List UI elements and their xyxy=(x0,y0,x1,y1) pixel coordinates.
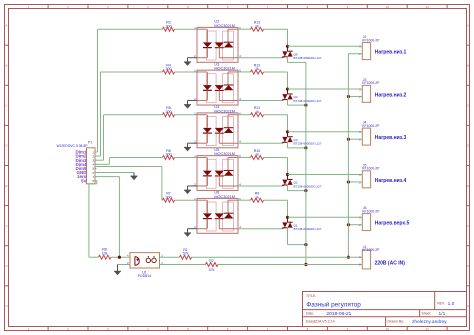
junction phase bus stage 4 xyxy=(304,189,307,192)
net label Нагрев.верх.5 xyxy=(375,221,410,227)
svg-text:H: H xyxy=(467,304,469,308)
svg-text:Нагрев.верх.5: Нагрев.верх.5 xyxy=(375,221,410,227)
net label Dim3 xyxy=(75,158,87,163)
wire R13 to node MT2 xyxy=(264,29,288,46)
svg-text:1k: 1k xyxy=(255,67,259,71)
svg-text:57k: 57k xyxy=(209,268,215,272)
net label Нагрев.низ.4 xyxy=(375,178,407,184)
wire connector J3 pin 2 to neutral bus xyxy=(348,95,362,97)
border reference ticks right xyxy=(467,23,470,308)
junction triac Q1 MT2 xyxy=(286,216,289,219)
net label 220В (AC IN) xyxy=(375,260,406,266)
junction phase bus stage 3 xyxy=(304,146,307,149)
ground U6 xyxy=(184,233,191,237)
net label 5V xyxy=(81,178,87,183)
junction zero node xyxy=(118,256,121,259)
junction neutral bus at J3 xyxy=(347,95,350,98)
svg-text:10k: 10k xyxy=(102,251,108,255)
resistor R6 xyxy=(163,149,175,160)
svg-text:KF1000-2P: KF1000-2P xyxy=(362,81,380,85)
pin numbers U5 xyxy=(194,154,241,186)
svg-text:A: A xyxy=(5,23,7,27)
svg-text:zhelezny.andrey: zhelezny.andrey xyxy=(412,319,447,325)
net label Dim2 xyxy=(75,154,87,159)
optocoupler U1 FOD814 xyxy=(130,253,160,279)
svg-text:BT138-600E/DG,127: BT138-600E/DG,127 xyxy=(294,99,322,103)
wire U1 pin 2 to R2 xyxy=(160,264,206,266)
wire Q3 MT1 to phase bus xyxy=(288,142,306,148)
wire U5 pin 2 to ground xyxy=(188,186,198,190)
resistor R13 xyxy=(251,21,264,32)
pin numbers U2 xyxy=(194,26,241,58)
wire R10 to node MT2 xyxy=(264,157,288,174)
pin numbers U6 xyxy=(194,197,241,229)
svg-text:E: E xyxy=(5,184,7,188)
svg-text:KF1000-2P: KF1000-2P xyxy=(362,167,380,171)
resistor R8 xyxy=(99,248,112,260)
junction neutral bus at J6 xyxy=(347,223,350,226)
wire R12 to node MT2 xyxy=(264,72,288,89)
svg-text:P1: P1 xyxy=(88,141,92,145)
op­tocoupler U5 MOC3021M xyxy=(197,148,238,191)
svg-text:10: 10 xyxy=(386,5,390,9)
connector J1 KF1000-2P xyxy=(359,245,380,269)
junction neutral bus at AC neutral xyxy=(347,256,350,259)
wire R9 to node MT2 xyxy=(264,200,288,217)
wire R2 to connector J1 pin 2 (AC line) xyxy=(218,264,362,266)
junction phase bus at AC line xyxy=(304,263,307,266)
junction triac Q3 MT2 xyxy=(286,130,289,133)
svg-text:1k: 1k xyxy=(255,153,259,157)
ground U1 xyxy=(114,271,121,275)
title block Date xyxy=(306,311,352,317)
svg-text:1k: 1k xyxy=(255,110,259,114)
svg-text:KF1000-2P: KF1000-2P xyxy=(362,38,380,42)
wire U2 pin 2 to ground xyxy=(188,58,198,62)
wire Dim2 P1 pin 2 to stage 2 xyxy=(95,72,163,156)
triac Q3 BT138-600E/DG,127 xyxy=(282,132,322,148)
ground U3 xyxy=(184,105,191,109)
triac Q4 BT138-600E/DG,127 xyxy=(282,89,322,105)
ground U4 xyxy=(184,147,191,151)
wire neutral bus xyxy=(347,54,349,258)
wire R1 to connector J1 pin 1 (AC neutral) xyxy=(192,256,363,258)
svg-text:MOC3021M: MOC3021M xyxy=(214,24,234,28)
svg-text:MOC3021M: MOC3021M xyxy=(214,195,234,199)
pin numbers U1 xyxy=(127,254,163,265)
resistor R10 xyxy=(251,149,264,160)
wire R8 to U1 pin 4 xyxy=(111,256,130,258)
net label Нагрев.низ.3 xyxy=(375,135,407,141)
svg-text:11: 11 xyxy=(426,5,429,9)
connector J5 KF1000-2P xyxy=(359,163,380,188)
net label Нагрев.низ.1 xyxy=(375,50,407,56)
svg-text:200: 200 xyxy=(166,195,172,199)
wire U2 pin 4 to gate of Q5 xyxy=(238,56,285,57)
svg-text:KF1000-2P: KF1000-2P xyxy=(362,248,380,252)
svg-text:REV:: REV: xyxy=(437,301,445,305)
svg-text:A: A xyxy=(467,23,469,27)
junction phase bus stage 5 xyxy=(304,243,307,246)
wire U1 pin 1 to R1 xyxy=(160,256,180,258)
op­tocoupler U6 MOC3021M xyxy=(197,191,238,234)
svg-text:TITLE:: TITLE: xyxy=(306,294,316,298)
wire GND P1 pin 6 xyxy=(95,173,134,177)
wire U6 pin 2 to ground xyxy=(188,229,198,233)
op­tocoupler U3 MOC3021M xyxy=(197,62,238,105)
svg-text:1k: 1k xyxy=(255,24,259,28)
svg-text:BT138-600E/DG,127: BT138-600E/DG,127 xyxy=(294,227,322,231)
wire MT2 node to connector J4 pin 1 xyxy=(288,131,363,133)
triac Q5 BT138-600E/DG,127 xyxy=(282,46,322,62)
wire U3 pin 6 to R12 xyxy=(238,71,251,73)
svg-text:B: B xyxy=(467,64,469,68)
title block EasyEDA version xyxy=(306,320,335,324)
title block Sheet xyxy=(422,311,446,317)
wire U5 pin 4 to gate of Q2 xyxy=(238,185,285,186)
border reference ticks top xyxy=(27,5,447,9)
title block xyxy=(303,292,467,327)
svg-text:57k: 57k xyxy=(183,252,189,256)
svg-text:Нагрев.низ.2: Нагрев.низ.2 xyxy=(375,92,407,98)
wire MT2 node to connector J3 pin 1 xyxy=(288,88,363,90)
wire U4 pin 6 to R11 xyxy=(238,114,251,116)
title Фазный регулятор xyxy=(306,301,361,309)
svg-text:F: F xyxy=(467,224,469,228)
wire Q5 MT1 to phase bus xyxy=(288,57,306,63)
svg-text:Date:: Date: xyxy=(306,312,314,316)
svg-text:11: 11 xyxy=(426,327,429,331)
svg-text:EasyEDA V5.3.14: EasyEDA V5.3.14 xyxy=(306,320,335,324)
svg-text:F: F xyxy=(6,224,8,228)
resistor R7 xyxy=(163,192,175,203)
triac Q1 BT138-600E/DG,127 xyxy=(282,217,322,233)
net label Dim5 xyxy=(75,166,87,171)
border reference ticks bottom xyxy=(27,327,447,332)
wire connector J5 pin 2 to neutral bus xyxy=(348,181,362,183)
title block REV xyxy=(437,301,454,307)
svg-text:BT138-600E/DG,127: BT138-600E/DG,127 xyxy=(294,56,322,60)
svg-text:220В (AC IN): 220В (AC IN) xyxy=(375,260,406,266)
wire R6 to optocoupler pin 1 xyxy=(175,156,198,158)
wire U4 pin 4 to gate of Q3 xyxy=(238,142,285,143)
wire U2 pin 6 to R13 xyxy=(238,28,251,30)
svg-text:KF1000-2P: KF1000-2P xyxy=(362,209,380,213)
pin numbers U4 xyxy=(194,111,241,143)
wire R11 to node MT2 xyxy=(264,115,288,132)
connector P1 WJ2EDGVC-5.08-8P xyxy=(57,141,97,184)
junction neutral bus at J4 xyxy=(347,138,350,141)
ground U5 xyxy=(184,190,191,194)
connector J4 KF1000-2P xyxy=(359,121,380,146)
ground U2 xyxy=(184,62,191,66)
resistor R1 xyxy=(180,248,192,259)
wire MT2 node to connector J6 pin 1 xyxy=(288,216,363,218)
wire connector J4 pin 2 to neutral bus xyxy=(348,138,362,140)
wire U6 pin 4 to gate of Q1 xyxy=(238,227,285,228)
wire U3 pin 4 to gate of Q4 xyxy=(238,99,285,100)
junction phase bus stage 2 xyxy=(304,104,307,107)
resistor R3 xyxy=(163,21,175,32)
wire zero P1 pin 7 to U1 xyxy=(95,177,119,258)
wire Dim3 P1 pin 3 to stage 3 xyxy=(95,115,163,161)
svg-text:FOD814: FOD814 xyxy=(138,274,152,278)
svg-text:WJ2EDGVC-5.08-8P: WJ2EDGVC-5.08-8P xyxy=(57,144,89,148)
pin numbers U3 xyxy=(194,69,241,101)
wire R4 to optocoupler pin 1 xyxy=(175,71,198,73)
wire MT2 node to connector J2 pin 1 xyxy=(288,45,363,47)
svg-text:Sheet:: Sheet: xyxy=(422,312,432,316)
ground P1 xyxy=(131,176,138,180)
svg-text:1k: 1k xyxy=(255,195,259,199)
svg-text:MOC3021M: MOC3021M xyxy=(214,152,234,156)
svg-text:Drawn By:: Drawn By: xyxy=(388,320,405,324)
svg-text:H: H xyxy=(5,304,7,308)
resistor R11 xyxy=(251,106,264,117)
wire Dim5 P1 pin 5 to stage 5 xyxy=(95,167,163,201)
wire Dim4 P1 pin 4 to stage 4 xyxy=(95,157,163,164)
resistor R12 xyxy=(251,63,264,74)
wire phase bus xyxy=(305,62,307,264)
svg-text:Нагрев.низ.1: Нагрев.низ.1 xyxy=(375,50,407,56)
wire R5 to optocoupler pin 1 xyxy=(175,114,198,116)
svg-text:B: B xyxy=(5,64,7,68)
wire R7 to optocoupler pin 1 xyxy=(175,199,198,201)
svg-text:Фазный регулятор: Фазный регулятор xyxy=(306,301,361,309)
net label Dim1 xyxy=(75,150,87,155)
svg-text:5V: 5V xyxy=(81,178,87,183)
resistor R2 xyxy=(206,259,219,272)
svg-text:MOC3021M: MOC3021M xyxy=(214,109,234,113)
svg-text:1/1: 1/1 xyxy=(439,311,446,317)
svg-text:E: E xyxy=(467,184,469,188)
junction triac Q4 MT2 xyxy=(286,87,289,90)
svg-text:MOC3021M: MOC3021M xyxy=(214,67,234,71)
connector J6 KF1000-2P xyxy=(359,206,380,231)
svg-text:BT138-600E/DG,127: BT138-600E/DG,127 xyxy=(294,142,322,146)
svg-text:1.0: 1.0 xyxy=(448,301,455,307)
junction triac Q5 MT2 xyxy=(286,45,289,48)
wire MT2 node to connector J5 pin 1 xyxy=(288,174,363,176)
wire U3 pin 2 to ground xyxy=(188,100,198,104)
wire U6 pin 6 to R9 xyxy=(238,199,251,201)
wire Q2 MT1 to phase bus xyxy=(288,185,306,191)
svg-text:R2: R2 xyxy=(209,259,213,263)
svg-text:200: 200 xyxy=(166,153,172,157)
svg-text:BT138-600E/DG,127: BT138-600E/DG,127 xyxy=(294,184,322,188)
net label zero xyxy=(77,174,87,179)
svg-text:10: 10 xyxy=(386,327,390,331)
wire U4 pin 2 to ground xyxy=(188,143,198,147)
svg-text:KF1000-2P: KF1000-2P xyxy=(362,124,380,128)
svg-text:Нагрев.низ.4: Нагрев.низ.4 xyxy=(375,178,407,184)
wire U5 pin 6 to R10 xyxy=(238,156,251,158)
junction triac Q2 MT2 xyxy=(286,173,289,176)
svg-text:200: 200 xyxy=(166,24,172,28)
wire 5V P1 pin 8 to R8 xyxy=(89,181,99,258)
wire connector J6 pin 2 to neutral bus xyxy=(348,224,362,226)
svg-text:200: 200 xyxy=(166,110,172,114)
resistor R9 xyxy=(251,192,264,203)
wire Dim1 P1 pin 1 to stage 1 xyxy=(95,29,163,152)
op­tocoupler U4 MOC3021M xyxy=(197,105,238,148)
svg-text:200: 200 xyxy=(166,67,172,71)
connector J3 KF1000-2P xyxy=(359,78,380,103)
net label Нагрев.низ.2 xyxy=(375,92,407,98)
triac Q2 BT138-600E/DG,127 xyxy=(282,175,322,191)
border reference ticks left xyxy=(5,23,9,308)
title block TITLE label xyxy=(306,294,316,298)
wire U1 pin 3 to ground xyxy=(118,265,131,272)
wire Q1 MT1 to phase bus xyxy=(288,228,306,245)
connector J2 KF1000-2P xyxy=(359,35,380,60)
op­tocoupler U2 MOC3021M xyxy=(197,20,238,63)
wire connector J2 pin 2 to neutral bus xyxy=(348,53,362,55)
resistor R5 xyxy=(163,106,175,117)
svg-text:2018-06-21: 2018-06-21 xyxy=(326,311,351,317)
svg-text:Нагрев.низ.3: Нагрев.низ.3 xyxy=(375,135,407,141)
resistor R4 xyxy=(163,63,175,74)
net label GND xyxy=(77,170,88,175)
junction neutral bus at J5 xyxy=(347,180,350,183)
net label Dim4 xyxy=(75,162,87,167)
wire R3 to optocoupler pin 1 xyxy=(175,28,198,30)
wire Q4 MT1 to phase bus xyxy=(288,99,306,105)
title block Drawn By xyxy=(388,319,448,325)
